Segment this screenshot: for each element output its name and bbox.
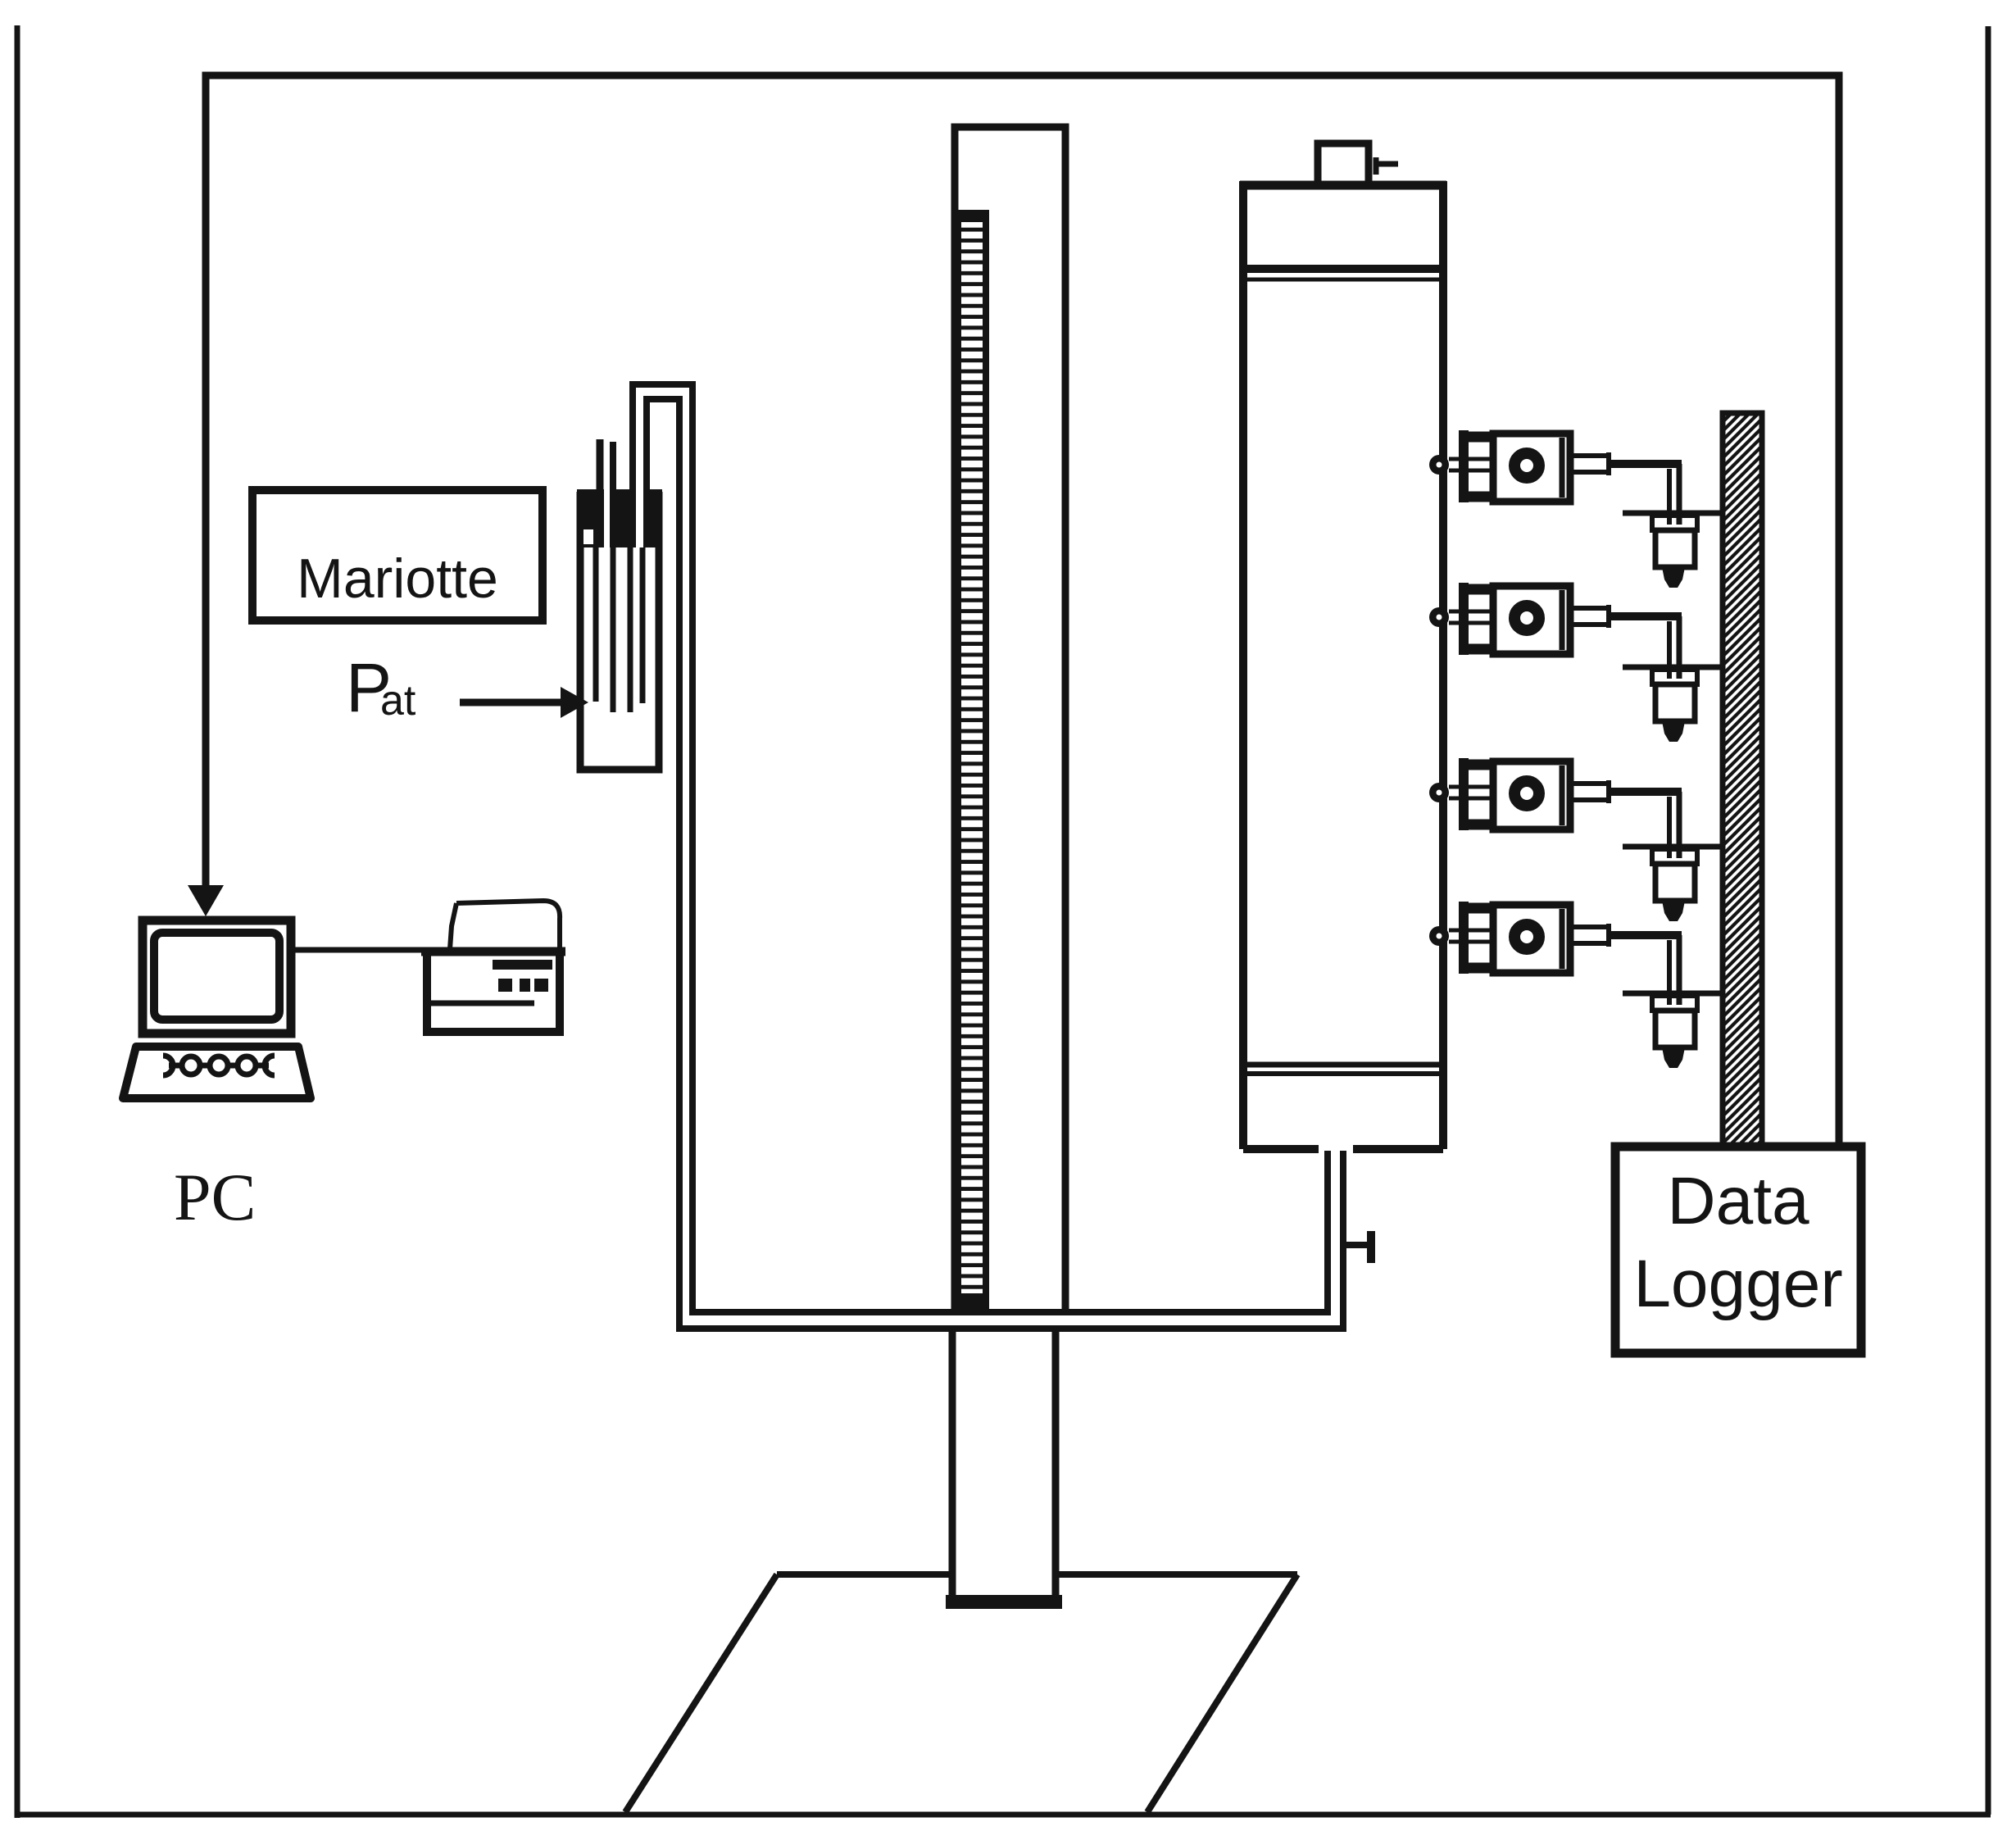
collector vial V1 bbox=[1623, 513, 1724, 588]
Mariotte air-inlet tube 2 bbox=[610, 442, 616, 492]
diaphragm port T2 bbox=[1514, 606, 1539, 630]
tensiometer transducer T3 bbox=[1429, 758, 1682, 858]
mounting bracket T4 bbox=[1459, 902, 1469, 974]
siphon tube inner wall + supply tube inner wall bbox=[647, 399, 1343, 1329]
signal wire T1 bbox=[1609, 460, 1682, 468]
connector T1 bbox=[1573, 453, 1608, 458]
siphon tube outer wall + supply tube to column base bbox=[633, 384, 1328, 1312]
mounting bracket T3 bbox=[1459, 758, 1469, 830]
svg-text:Data: Data bbox=[1667, 1164, 1809, 1238]
soil column body bbox=[1240, 185, 1446, 1149]
arrowhead into PC bbox=[188, 885, 224, 916]
porous cup T2 bbox=[1429, 607, 1449, 627]
Pat arrow bbox=[460, 699, 564, 706]
signal wire T2 bbox=[1609, 612, 1682, 620]
PC keyboard bbox=[123, 1047, 311, 1098]
Mariotte internal tube 3 bbox=[628, 547, 633, 712]
connector T3 bbox=[1573, 781, 1608, 786]
cap vent tick bbox=[1374, 157, 1379, 175]
sensor mounting rail (hatched) bbox=[1723, 413, 1762, 1147]
figure border frame bottom bbox=[15, 1812, 1991, 1818]
collector vial V4 bbox=[1623, 993, 1724, 1068]
diaphragm port T3 bbox=[1514, 781, 1539, 806]
connector T2 bbox=[1573, 606, 1608, 611]
svg-text:PC: PC bbox=[174, 1160, 256, 1234]
stem T4 bbox=[1449, 929, 1492, 933]
diaphragm port T1 bbox=[1514, 453, 1539, 478]
stem T2 bbox=[1449, 610, 1492, 614]
housing T4 bbox=[1493, 905, 1570, 973]
housing T3 bbox=[1493, 761, 1570, 829]
Mariotte label box bbox=[252, 490, 543, 620]
porous cup T3 bbox=[1429, 783, 1449, 802]
connector T4 bbox=[1573, 925, 1608, 929]
Mariotte internal tube 4 bbox=[640, 547, 646, 703]
collector vial V3 bbox=[1623, 847, 1724, 921]
printer body bbox=[421, 952, 565, 1032]
collector vial V2 bbox=[1623, 667, 1724, 742]
Mariotte bottle walls bbox=[580, 492, 659, 770]
figure border frame right bbox=[1986, 26, 1991, 1815]
drain valve on outlet tube bbox=[1343, 1231, 1371, 1263]
Data Logger box bbox=[1615, 1147, 1861, 1353]
svg-text:Logger: Logger bbox=[1633, 1247, 1842, 1321]
diaphragm port T4 bbox=[1514, 925, 1539, 949]
signal wire T3 bbox=[1609, 788, 1682, 796]
tensiometer transducer T4 bbox=[1429, 902, 1682, 1005]
Mariotte bottle stopper bbox=[577, 489, 662, 547]
printer paper sheet bbox=[450, 901, 560, 949]
stand base plate bbox=[625, 1574, 1297, 1812]
porous cup T1 bbox=[1429, 455, 1449, 475]
mounting bracket T1 bbox=[1459, 430, 1469, 502]
graduated reference column bbox=[955, 127, 1065, 1310]
housing T1 bbox=[1493, 434, 1570, 502]
tensiometer transducer T1 bbox=[1429, 430, 1682, 525]
wire PC-to-DataLogger loop bbox=[206, 75, 1839, 1147]
porous cup T4 bbox=[1429, 926, 1449, 946]
soil column footer line bbox=[1243, 1062, 1443, 1068]
figure border frame left bbox=[15, 25, 20, 1818]
tensiometer transducer T2 bbox=[1429, 583, 1682, 679]
Mariotte internal tube 1 bbox=[593, 547, 599, 702]
stem T1 bbox=[1449, 457, 1492, 461]
soil column top cap bbox=[1318, 143, 1398, 185]
soil column header line bbox=[1243, 265, 1443, 273]
svg-text:Mariotte: Mariotte bbox=[297, 547, 498, 610]
Pat label bbox=[346, 649, 416, 726]
Mariotte internal tube 2 bbox=[611, 547, 616, 712]
svg-text:at: at bbox=[380, 677, 416, 725]
stem T3 bbox=[1449, 785, 1492, 789]
housing T2 bbox=[1493, 586, 1570, 654]
mounting bracket T2 bbox=[1459, 583, 1469, 655]
column pedestal bbox=[946, 1332, 1062, 1609]
wire PC to printer bbox=[291, 947, 426, 953]
PC monitor bbox=[143, 920, 291, 1034]
Mariotte air-inlet tube 1 bbox=[597, 439, 604, 492]
signal wire T4 bbox=[1609, 931, 1682, 939]
